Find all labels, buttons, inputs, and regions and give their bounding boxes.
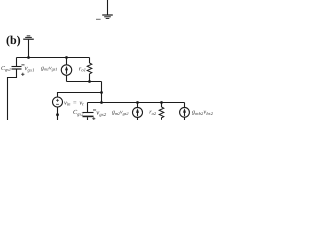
wire top ground stem [107, 0, 109, 15]
junction dot (ground / rail) [27, 56, 30, 59]
wire from Cgs1 down-left [8, 69, 17, 120]
resistor ro1 [89, 58, 91, 64]
junction dot (bottom rail tee) [100, 101, 103, 104]
resistor ro2 [161, 103, 163, 108]
wire bottom of top row [67, 81, 102, 83]
plus sign (cap2, clipped) [92, 117, 95, 120]
ground (top, figure a remnant) [102, 14, 113, 19]
svg-text:ro2: ro2 [149, 110, 157, 116]
svg-text:Cgs1: Cgs1 [1, 66, 11, 72]
minus sign (cap1) [21, 63, 24, 66]
junction dot (vin wire tee) [100, 91, 103, 94]
stray mark (cropped text from figure a) [96, 19, 101, 20]
minus sign (cap2) [93, 109, 96, 112]
capacitor Cgs1 [16, 58, 18, 67]
wire right vertical linking rows [101, 82, 103, 103]
plus sign (inside vin) [56, 99, 59, 104]
junction dot (below vin) [56, 113, 59, 116]
current source gmb2*vbs2 [184, 103, 186, 108]
svg-text:(b): (b) [6, 33, 21, 47]
svg-text:gmb2vbs2: gmb2vbs2 [192, 110, 214, 116]
plus sign (cap1) [21, 73, 24, 76]
node: top rail (output node of M1 stage) [17, 57, 90, 59]
current source gm2*vgs2 [137, 103, 139, 108]
ground (inverted, above top rail) [28, 40, 30, 58]
svg-text:gm2vgs2: gm2vgs2 [112, 110, 128, 116]
junction dot (ro1 bottom) [88, 80, 91, 83]
node: bottom rail [88, 102, 185, 104]
capacitor Cgs2 [87, 103, 89, 113]
svg-text:=: = [73, 99, 77, 106]
voltage source vin [58, 93, 102, 98]
svg-text:gm1vgs1: gm1vgs1 [41, 65, 57, 71]
current source gm1*vgs1 [66, 58, 68, 65]
